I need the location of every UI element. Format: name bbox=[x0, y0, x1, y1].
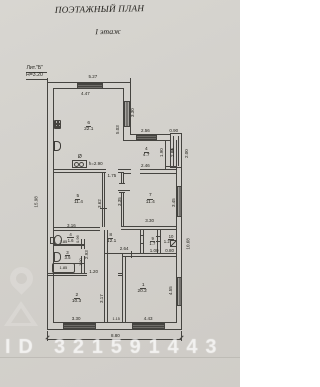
window top wall room6 bbox=[77, 83, 104, 90]
wire bath block right wall mid bbox=[81, 239, 82, 249]
node dim 5.03 bbox=[115, 121, 120, 134]
node room 10 label bbox=[166, 234, 177, 239]
node dim 1.00 bbox=[150, 248, 159, 253]
node room 4 top label bbox=[140, 147, 152, 152]
wire left wall inner bbox=[53, 88, 54, 323]
node dim 5.27 bbox=[89, 74, 98, 79]
wire right wall inner bbox=[176, 140, 177, 323]
node room 9 label bbox=[148, 236, 158, 241]
node dim 0.96 bbox=[75, 230, 80, 243]
wire room2 top wall bbox=[47, 273, 87, 274]
node watermark id number bbox=[5, 336, 245, 359]
wire room1 left wall bbox=[122, 253, 123, 322]
wire bottom wall inner bbox=[53, 322, 176, 323]
node watermark pin icon bbox=[5, 262, 38, 295]
node lighter strip below fold bbox=[0, 357, 240, 387]
wire rooms 7 bottom wall bbox=[121, 226, 176, 227]
wire dim tick 2.64 end bbox=[130, 251, 133, 258]
node dim 3.17 bbox=[99, 290, 104, 303]
node dim 4.47 bbox=[81, 91, 90, 96]
node room 6 label bbox=[82, 121, 95, 126]
node dim 3.30 room2 bbox=[72, 316, 81, 321]
node dim 2.64 bbox=[120, 246, 129, 251]
node dim 2.46 bbox=[141, 163, 150, 168]
wire paper fold line bbox=[0, 357, 240, 358]
window right wall room1 bbox=[176, 277, 183, 306]
wire closet bump top bbox=[170, 133, 182, 134]
wire dim ticks top wall bbox=[46, 78, 49, 83]
wire left wall outer bbox=[47, 82, 48, 330]
node dim 3.45 bbox=[171, 194, 176, 207]
node room 4 wc label bbox=[65, 232, 76, 237]
node room 7 label bbox=[144, 193, 156, 198]
wire room9 left wall bbox=[140, 229, 141, 253]
wire closet strip bottom stub bbox=[118, 273, 123, 274]
subtitle: I этаж bbox=[60, 26, 156, 37]
node room 1 label bbox=[137, 283, 150, 288]
title: ПОЭТАЖНЫЙ ПЛАН bbox=[0, 2, 199, 16]
node dim 1.90 closet bbox=[159, 144, 164, 157]
wire WC bottom wall bbox=[53, 244, 85, 245]
node toilet in wc bbox=[50, 237, 55, 244]
wire room9/room10 wall bbox=[157, 229, 158, 253]
node dim 2.93 bbox=[84, 246, 89, 259]
wire closet inner wall a bbox=[173, 136, 174, 167]
node dim 2.00 right bbox=[184, 145, 189, 158]
wire room6 right wall outer bbox=[130, 82, 131, 135]
window bottom wall room1 bbox=[132, 323, 166, 330]
wire room5 bottom wall (bath block top) bbox=[53, 227, 100, 228]
wire bath block right wall upper bbox=[81, 230, 82, 232]
node dim 0.80 bbox=[165, 248, 174, 253]
wire room7 left wall upper part bbox=[121, 172, 122, 184]
wire room4/room7 wall upper line bbox=[123, 169, 131, 170]
wire room4/room7 wall lower line bbox=[123, 173, 131, 174]
wire closet bottom line b bbox=[170, 167, 182, 168]
node electric panel on left wall bbox=[54, 120, 61, 129]
node room 8 label bbox=[105, 233, 117, 238]
wire top wall outer bbox=[47, 82, 131, 83]
node dim 1.75 bbox=[108, 173, 117, 178]
wire room6 right wall inner bbox=[123, 88, 124, 140]
node door marks room9 bbox=[140, 234, 144, 237]
wire right-section top wall inner bbox=[123, 140, 170, 141]
node dim 1.15 strip bbox=[113, 317, 120, 322]
wire room7 door leaf bbox=[118, 189, 131, 192]
node dim 1.90 room3 bbox=[78, 253, 83, 266]
wire top wall inner bbox=[53, 88, 124, 89]
wire room3 bottom line to wall bbox=[73, 262, 85, 265]
node room 3 label bbox=[63, 250, 73, 255]
node sink in room3 bbox=[54, 252, 61, 261]
window bottom wall room2 bbox=[63, 323, 96, 330]
wire dim line 8.80 bbox=[47, 338, 182, 341]
wire bottom wall outer bbox=[47, 329, 182, 330]
node watermark triangle bbox=[4, 301, 38, 326]
wire dim tick 3.62 bbox=[100, 207, 107, 210]
node room 2 label bbox=[70, 293, 83, 298]
node dim 2.56 bbox=[141, 128, 150, 133]
node dim 3.62 bbox=[97, 195, 102, 208]
node dim 8.80 bbox=[111, 333, 120, 338]
node dim 1.85 wc bbox=[60, 239, 68, 244]
wire closet bottom line a bbox=[165, 166, 175, 167]
node bathtub room3 with dim 1.85 bbox=[52, 263, 75, 272]
node stove in room6 wall bbox=[72, 160, 87, 168]
wire bath block right wall lower bbox=[81, 256, 82, 273]
node dim 2.80 closet bbox=[170, 144, 175, 157]
wire room6/room5 wall upper line (left part) bbox=[53, 169, 106, 170]
node dim 3.35 bbox=[117, 193, 122, 206]
node stove diameter mark bbox=[78, 155, 82, 160]
wire room6/corridor wall stub right of door bbox=[118, 169, 124, 170]
wire closet inner wall b bbox=[178, 136, 179, 167]
wire hall / room1 top wall line bbox=[104, 253, 175, 254]
wire room5 right wall bbox=[102, 172, 103, 228]
window right wall room7 bbox=[176, 186, 183, 217]
wire closet bump left bbox=[170, 133, 171, 167]
node boiler symbol on left wall bbox=[54, 141, 61, 151]
node dim 15.98 bbox=[34, 192, 39, 208]
node dim 3.16 bbox=[67, 223, 76, 228]
node dim 4.55 bbox=[168, 282, 173, 295]
wire hall west wall (spine) bbox=[104, 230, 105, 323]
Лит Б / Н=3.20 block bbox=[27, 66, 44, 71]
node dim 10.68 bbox=[186, 233, 191, 249]
wire room7 left wall lower part bbox=[121, 193, 122, 227]
node dim 4.43 bbox=[144, 316, 153, 321]
node dim 1.20 bbox=[89, 269, 98, 274]
window right wall room6 bbox=[123, 101, 131, 127]
node dim 0.90 bbox=[169, 128, 178, 133]
node dim 3.30 room7 bbox=[145, 218, 154, 223]
node dim h=2.90 bbox=[89, 161, 103, 166]
wire right-section top wall outer bbox=[130, 134, 170, 135]
wire closet compartment divider bbox=[170, 148, 173, 151]
window top wall room4 bbox=[136, 134, 157, 141]
node room 5 label bbox=[72, 194, 84, 199]
wire room1 top wall inner line bbox=[122, 256, 175, 257]
node dim 3.30 vertical bbox=[130, 104, 135, 117]
wire room7 door jamb ticks bbox=[119, 182, 124, 185]
wire room4 right wall bbox=[165, 140, 166, 169]
wire right wall outer bbox=[181, 133, 182, 330]
